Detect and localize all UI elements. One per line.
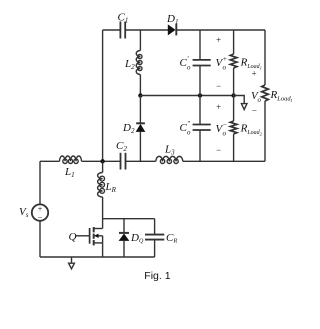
resistor RLoad-t rightmost <box>264 30 266 85</box>
svg-text:−: − <box>216 145 222 155</box>
svg-text:+: + <box>37 204 42 213</box>
wire top rail middle segment <box>126 29 168 31</box>
wire top rail left segment <box>103 29 120 31</box>
node middle rail / RLoad branch <box>231 93 235 97</box>
svg-text:″: ″ <box>187 120 190 128</box>
node middle rail / Co branch <box>198 93 202 97</box>
svg-text:−: − <box>223 121 228 129</box>
source Vs <box>39 161 41 204</box>
capacitor Co-prime branch upper <box>199 30 201 59</box>
capacitor C2 <box>121 153 126 170</box>
diode D2 <box>139 96 141 124</box>
svg-text:o: o <box>223 130 227 138</box>
svg-text:o: o <box>187 129 191 137</box>
wire output arrow stub <box>234 96 244 105</box>
node L2/D2 middle junction <box>138 93 142 97</box>
ground <box>71 257 73 263</box>
resistor RLoad1 <box>233 30 235 54</box>
wire middle rail <box>140 95 234 97</box>
wire bottom rail <box>40 256 155 258</box>
wire bottom-right rail <box>103 160 120 162</box>
svg-text:Q: Q <box>69 231 77 243</box>
svg-text:−: − <box>251 106 257 116</box>
svg-text:o: o <box>223 64 227 72</box>
svg-text:o: o <box>187 64 191 72</box>
svg-text:+: + <box>216 35 222 45</box>
wire snubber top rail <box>103 218 155 220</box>
svg-text:+: + <box>251 69 257 79</box>
output arrowhead <box>241 104 247 110</box>
inductor L1 <box>40 160 60 162</box>
capacitor Co-doubleprime branch lower <box>199 96 201 125</box>
wire left vertical from top rail to main junction <box>102 30 104 161</box>
inductor L3 <box>156 156 183 161</box>
svg-text:Fig. 1: Fig. 1 <box>144 270 170 282</box>
inductor L2 <box>139 30 141 51</box>
capacitor C1 <box>120 22 125 39</box>
inductor LR <box>102 161 104 172</box>
svg-text:o: o <box>258 96 262 104</box>
svg-text:+: + <box>223 55 228 63</box>
svg-text:+: + <box>216 102 222 112</box>
wire top rail right segment <box>176 29 265 31</box>
resistor RLoad2 <box>233 96 235 122</box>
diode D1 <box>168 24 177 36</box>
capacitor CR <box>154 219 156 234</box>
svg-text:−: − <box>216 81 222 91</box>
node main junction <box>100 159 104 163</box>
transistor Q MOSFET <box>76 235 90 237</box>
diode DQ <box>123 219 125 233</box>
